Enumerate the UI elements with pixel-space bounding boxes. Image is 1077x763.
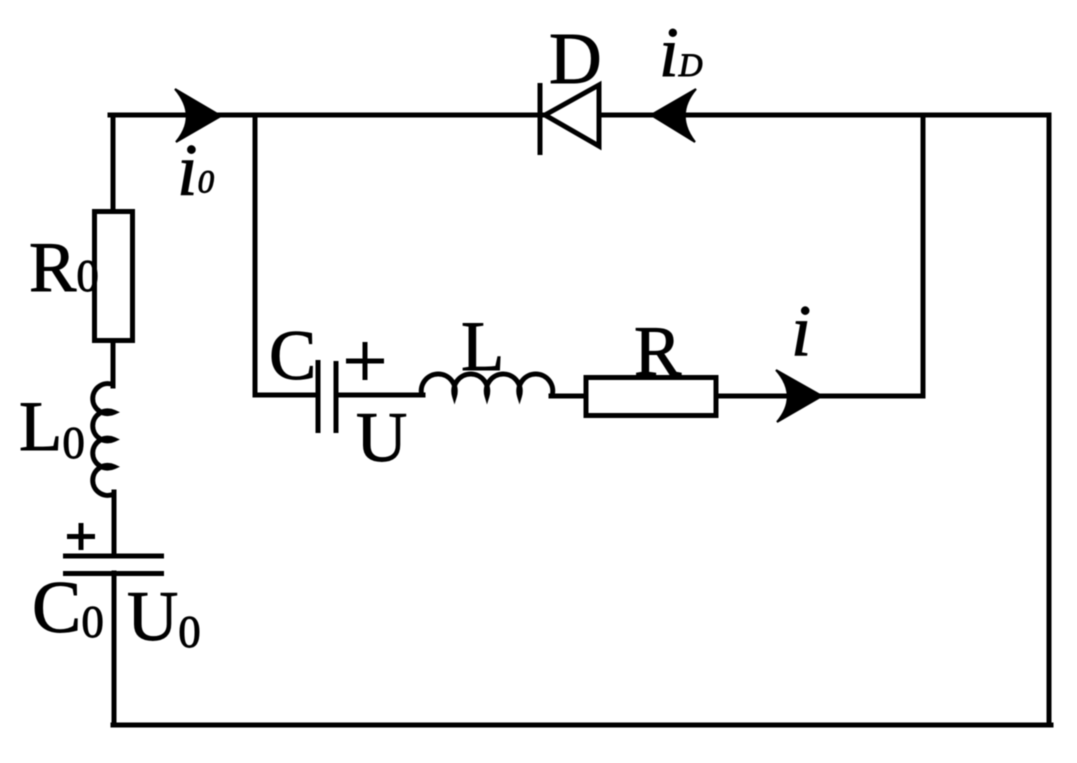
capacitor C plus sign	[346, 342, 384, 380]
svg-text:C0: C0	[32, 567, 104, 649]
inductor L0	[93, 384, 114, 496]
resistor R	[586, 378, 716, 416]
arrow i	[776, 370, 822, 422]
arrow i0	[175, 89, 221, 142]
svg-text:i: i	[791, 290, 811, 371]
wire left below C0 to bottom	[112, 573, 117, 725]
diode D	[545, 85, 599, 146]
diode D cathode bar	[538, 83, 543, 155]
svg-text:L: L	[461, 308, 504, 386]
svg-text:U0: U0	[127, 578, 201, 657]
inductor L	[421, 374, 553, 396]
wire inner-right vertical	[921, 115, 926, 396]
svg-text:D: D	[549, 18, 602, 99]
svg-text:U: U	[356, 399, 407, 477]
capacitor C plates	[318, 360, 336, 433]
wire left below coil to C0	[112, 492, 117, 556]
svg-text:L0: L0	[19, 388, 85, 468]
svg-text:R0: R0	[29, 229, 99, 307]
svg-text:iD: iD	[659, 14, 703, 92]
wire top horizontal	[110, 113, 1049, 118]
svg-text:C: C	[269, 317, 316, 395]
wire left vertical upper	[111, 115, 116, 213]
arrow iD	[651, 89, 696, 142]
svg-text:i0: i0	[177, 130, 215, 212]
wire R to right corner	[716, 394, 923, 399]
wire L coil to R	[551, 394, 586, 399]
wire inner horizontal to C	[255, 393, 316, 398]
wire bottom horizontal	[113, 723, 1051, 728]
resistor R0	[95, 212, 133, 341]
svg-text:R: R	[634, 313, 682, 391]
capacitor C0 plates	[63, 556, 164, 574]
wire right vertical outer	[1047, 115, 1052, 725]
wire C to L coil	[337, 393, 423, 398]
capacitor C0 plus sign	[67, 523, 95, 550]
wire inner-left vertical	[253, 115, 258, 395]
wire left vertical lower segments	[111, 341, 116, 386]
